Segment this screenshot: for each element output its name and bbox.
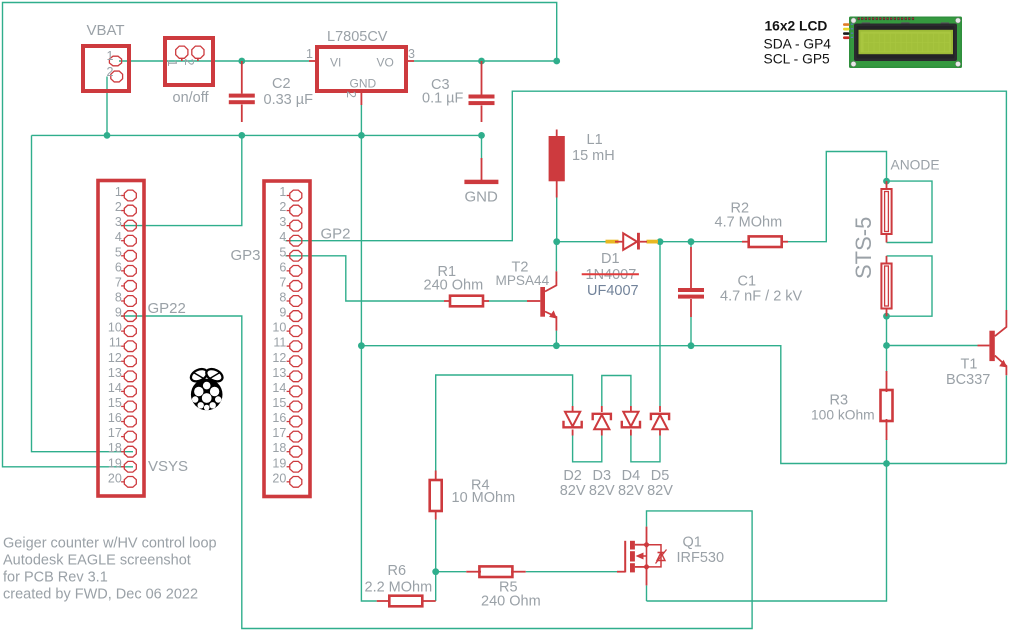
tube STS-5 upper element leads	[886, 181, 888, 242]
transistor T2 emitter	[545, 310, 557, 330]
pin header pad 5 stub	[121, 255, 124, 257]
diode D4 zener symbol	[622, 412, 640, 428]
pin header pad 18 stub	[121, 451, 124, 453]
svg-text:2: 2	[182, 59, 196, 66]
svg-text:2: 2	[344, 91, 358, 98]
pin header pad 11	[124, 341, 136, 352]
label D1	[601, 251, 620, 267]
svg-text:11: 11	[109, 336, 122, 350]
pin header pad 15 stub	[287, 405, 290, 407]
wire zener bridge D3-D4 top	[602, 376, 631, 407]
pin number 16	[272, 411, 286, 425]
label on/off	[173, 90, 210, 106]
value 240 Ohm of R1	[424, 278, 484, 294]
capacitor C3 plates	[469, 95, 495, 106]
value IRF530 of Q1	[677, 550, 725, 566]
svg-text:10 MOhm: 10 MOhm	[452, 490, 516, 506]
svg-text:L1: L1	[587, 132, 603, 148]
pin header pad 18	[290, 446, 302, 457]
label GP3	[231, 247, 261, 264]
resistor R3 body	[881, 390, 893, 421]
pin header pad 19	[290, 461, 302, 472]
svg-text:VSYS: VSYS	[148, 458, 188, 475]
svg-text:STS-5: STS-5	[851, 217, 876, 279]
pin number 13	[108, 366, 122, 380]
svg-text:C1: C1	[738, 274, 757, 290]
pin number 2 of VBAT	[107, 65, 114, 79]
svg-text:1: 1	[306, 47, 313, 61]
pin header pad 1	[124, 190, 136, 201]
strikethrough line over 1N4007	[582, 273, 639, 275]
pin header pad 2	[290, 205, 302, 216]
pin header pad 13	[124, 371, 136, 382]
value 240 Ohm of R5	[481, 594, 541, 610]
pin header pad 10 stub	[287, 330, 290, 332]
diode D1 yellow overlap left	[606, 240, 619, 244]
transistor T2 base lead	[527, 300, 540, 302]
tube STS-5 upper element	[881, 189, 891, 234]
svg-text:82V: 82V	[618, 483, 644, 499]
svg-text:13: 13	[272, 366, 286, 380]
diode D1 triangle	[623, 233, 637, 250]
svg-text:16: 16	[272, 411, 286, 425]
node junction C3 bottom / GND symbol	[478, 132, 485, 139]
pin number 1	[115, 185, 122, 199]
diode D1 yellow overlap right	[647, 240, 659, 244]
pin header pad 6	[124, 265, 136, 276]
pin number 9	[115, 306, 122, 320]
wire R4 bottom to gate node	[435, 513, 437, 572]
pin header pad 4	[124, 235, 136, 246]
pin header pad 5 stub	[287, 255, 290, 257]
pin header pad 11 stub	[287, 345, 290, 347]
svg-text:D1: D1	[601, 251, 620, 267]
wire D1 cathode to C1 junction	[658, 241, 749, 243]
pin number 1 of on/off (rotated)	[165, 60, 179, 67]
raspberry pi logo	[189, 367, 225, 411]
pin number 17	[108, 426, 122, 440]
wire GND rail up to T1 emitter	[1005, 375, 1007, 463]
pin number 2	[115, 200, 122, 214]
mosfet Q1 gate line	[624, 541, 626, 573]
pin header pad 12	[124, 356, 136, 367]
pin number 15	[272, 396, 286, 410]
label GP2	[321, 226, 351, 243]
value BC337 of T1	[946, 372, 990, 388]
diode D2 zener symbol	[564, 412, 582, 428]
resistor R3 leads	[886, 371, 888, 440]
pin header pad 18 stub	[287, 451, 290, 453]
svg-text:1: 1	[279, 185, 286, 199]
resistor R6 leads	[377, 600, 436, 602]
svg-text:Q1: Q1	[683, 535, 702, 551]
svg-text:19: 19	[108, 456, 122, 470]
svg-text:Geiger counter w/HV control lo: Geiger counter w/HV control loop	[3, 536, 217, 552]
pin header pad 1	[290, 190, 302, 201]
pin header pad 7 stub	[121, 285, 124, 287]
svg-text:Autodesk EAGLE screenshot: Autodesk EAGLE screenshot	[3, 553, 191, 569]
LCD module photo	[843, 17, 962, 69]
pin header pad 4 stub	[287, 240, 290, 242]
svg-text:ANODE: ANODE	[891, 158, 940, 173]
svg-text:GP2: GP2	[321, 226, 351, 243]
svg-text:15 mH: 15 mH	[572, 148, 615, 164]
node junction STS-5 cathode	[883, 313, 890, 320]
pin header pad 6 stub	[121, 270, 124, 272]
wire VBAT pin2 to GND bus	[106, 77, 108, 136]
label STS-5 (rotated)	[851, 217, 876, 279]
svg-text:5: 5	[279, 245, 286, 259]
label GND of ground symbol	[465, 189, 499, 206]
svg-text:1: 1	[115, 185, 122, 199]
wire header pin9 GP22 to Q1 drain loop	[121, 316, 752, 629]
label SCL - GP5	[764, 52, 831, 67]
pin header pad 16 stub	[121, 421, 124, 423]
mosfet Q1 source lead	[646, 569, 648, 585]
svg-text:15: 15	[108, 396, 122, 410]
pin header pad 10 stub	[121, 330, 124, 332]
pin number 20	[272, 471, 286, 485]
label R3	[830, 393, 849, 409]
svg-text:2: 2	[115, 200, 122, 214]
label R2	[731, 201, 750, 217]
pin number 17	[272, 426, 286, 440]
wire base node to R3 top	[886, 346, 888, 373]
pin number 2 of U1 (rotated)	[344, 91, 358, 98]
svg-text:UF4007: UF4007	[587, 283, 639, 299]
svg-text:19: 19	[272, 456, 286, 470]
svg-text:82V: 82V	[647, 483, 673, 499]
switch on/off box	[165, 38, 213, 85]
pin header pad 17	[290, 431, 302, 442]
svg-text:L7805CV: L7805CV	[327, 29, 388, 45]
label R4	[471, 478, 490, 494]
pin header pad 8 stub	[287, 300, 290, 302]
pin header pad 5	[124, 250, 136, 261]
wire VSYS border loop to header pin 19	[3, 3, 557, 467]
svg-text:9: 9	[115, 306, 122, 320]
pin header pad 11	[290, 341, 302, 352]
label T2	[512, 260, 529, 276]
pin header pad 9	[124, 311, 136, 322]
value 82V of D5	[647, 483, 673, 499]
svg-text:R6: R6	[388, 563, 407, 579]
svg-text:MPSA44: MPSA44	[496, 273, 550, 288]
svg-text:14: 14	[272, 381, 286, 395]
label VBAT	[87, 22, 125, 39]
svg-text:created by FWD, Dec 06 2022: created by FWD, Dec 06 2022	[3, 587, 198, 603]
pin number 19	[272, 456, 286, 470]
svg-text:3: 3	[408, 47, 415, 61]
node junction base node R3/T1	[883, 342, 890, 349]
pin header pad 17	[124, 431, 136, 442]
svg-text:D2: D2	[563, 468, 582, 484]
pin header pad 6	[290, 265, 302, 276]
svg-text:6: 6	[115, 260, 122, 274]
pin header pad 3	[124, 220, 136, 231]
wire GND rail down to Q1 source	[647, 464, 887, 602]
pin number 3	[279, 215, 286, 229]
svg-text:3: 3	[115, 215, 122, 229]
svg-text:2.2 MOhm: 2.2 MOhm	[365, 580, 433, 596]
wire GND vertical from bus down to R6	[361, 135, 376, 601]
pin number 1	[279, 185, 286, 199]
svg-text:82V: 82V	[589, 483, 615, 499]
value 0.1 uF of C3	[422, 91, 464, 107]
pin number 12	[108, 351, 122, 365]
pin number 6	[115, 260, 122, 274]
svg-text:for PCB Rev 3.1: for PCB Rev 3.1	[3, 570, 108, 586]
svg-text:17: 17	[272, 426, 286, 440]
pin header pad 12 stub	[121, 360, 124, 362]
value UF4007 of D1	[587, 283, 639, 299]
pin header pad 3 stub	[121, 225, 124, 227]
wire zener chain top from R4	[436, 375, 573, 477]
svg-text:D4: D4	[622, 468, 641, 484]
transistor T2 collector	[545, 271, 556, 291]
resistor R5 leads	[466, 571, 525, 573]
pin number 13	[272, 366, 286, 380]
label D5	[651, 468, 670, 484]
wire GND bus to header pin18	[32, 135, 134, 451]
pin number 15	[108, 396, 122, 410]
label GP22	[148, 300, 186, 317]
diode D4 leads	[630, 406, 632, 436]
pin header pad 3 stub	[287, 225, 290, 227]
label D4	[622, 468, 641, 484]
wire zener U D2-D3 bottom	[573, 436, 602, 462]
label Q1	[683, 535, 702, 551]
pin number 4	[279, 230, 286, 244]
value 100 kOhm of R3	[811, 408, 875, 423]
pin header pad 2	[124, 205, 136, 216]
wire STS-5 upper loop	[887, 181, 933, 242]
pin number 11	[273, 336, 286, 350]
pin number 5	[279, 245, 286, 259]
wire R6 right to gate node	[435, 572, 437, 601]
svg-text:R3: R3	[830, 393, 849, 409]
node junction D5 stack top	[657, 238, 664, 245]
svg-text:4.7 nF / 2 kV: 4.7 nF / 2 kV	[720, 289, 803, 305]
pin number 14	[272, 381, 286, 395]
wire GND bus under regulator	[32, 134, 482, 136]
label L1	[587, 132, 603, 148]
svg-text:0.33 µF: 0.33 µF	[264, 92, 314, 108]
pin number 5	[115, 245, 122, 259]
svg-text:16x2 LCD: 16x2 LCD	[765, 19, 828, 34]
svg-text:4: 4	[279, 230, 286, 244]
svg-text:82V: 82V	[560, 483, 586, 499]
svg-text:VI: VI	[330, 56, 341, 70]
svg-text:8: 8	[279, 290, 286, 304]
wire +5V net: U1 VO to C3 and L1	[414, 60, 557, 62]
label L7805CV	[327, 29, 388, 45]
pin header pad 7	[124, 281, 136, 292]
pin header pad 19 stub	[121, 466, 124, 468]
connector VBAT pad 2	[111, 71, 123, 82]
diode D1 cathode lead	[640, 241, 647, 243]
pin header pad 13 stub	[287, 375, 290, 377]
wire STS-5 lower loop	[887, 256, 933, 316]
pin number 2	[279, 200, 286, 214]
node junction T2 emitter on GND rail	[553, 342, 560, 349]
svg-text:on/off: on/off	[173, 90, 210, 106]
capacitor C2 leads	[241, 61, 243, 122]
pin number 2 of on/off (rotated)	[182, 59, 196, 66]
pin number 18	[272, 441, 286, 455]
pin header pad 20	[290, 476, 302, 487]
pin header pad 2 stub	[287, 210, 290, 212]
wire C2 bottom to pin3 of left header	[121, 135, 242, 225]
svg-text:2: 2	[279, 200, 286, 214]
pin number 14	[108, 381, 122, 395]
mosfet Q1 gate lead	[617, 571, 625, 573]
svg-text:GND: GND	[465, 189, 499, 206]
node junction VBAT pin2 / GND bus	[104, 132, 111, 139]
svg-text:5: 5	[115, 245, 122, 259]
pin number 10	[272, 321, 286, 335]
capacitor C1 plates	[678, 288, 704, 299]
regulator U1 pin VO stub	[406, 60, 414, 62]
svg-text:4: 4	[115, 230, 122, 244]
svg-text:BC337: BC337	[946, 372, 990, 388]
svg-text:D3: D3	[593, 468, 612, 484]
inductor L1 leads	[556, 130, 558, 198]
pin header pad 14 stub	[287, 390, 290, 392]
svg-text:20: 20	[108, 471, 122, 485]
wire GP3 net: header pin5 to R1	[286, 256, 445, 301]
svg-text:D5: D5	[651, 468, 670, 484]
pin header pad 8	[290, 296, 302, 307]
pin header pad 7 stub	[287, 285, 290, 287]
pin number 8	[279, 290, 286, 304]
pin header pad 12 stub	[287, 360, 290, 362]
label 16x2 LCD	[765, 19, 828, 34]
wire zener U D4-D5 bottom	[631, 436, 660, 462]
wire T2 emitter vertical	[555, 331, 557, 346]
svg-text:SCL - GP5: SCL - GP5	[764, 52, 831, 67]
wire GP2 net: header pin4 to T1 collector	[286, 91, 1007, 310]
pin header pad 4 stub	[121, 240, 124, 242]
pin header pad 17 stub	[287, 436, 290, 438]
pin name VO	[377, 56, 394, 70]
svg-text:20: 20	[272, 471, 286, 485]
svg-text:SDA - GP4: SDA - GP4	[764, 37, 832, 52]
label C1	[738, 274, 757, 290]
resistor R6 body	[389, 596, 422, 607]
value 0.33 uF of C2	[264, 92, 314, 108]
node junction U1 GND pin / bus	[358, 132, 365, 139]
pin header pad 6 stub	[287, 270, 290, 272]
pin header pad 1 stub	[287, 195, 290, 197]
pin header pad 4	[290, 235, 302, 246]
pin header pad 8 stub	[121, 300, 124, 302]
svg-text:VO: VO	[377, 56, 394, 70]
resistor R1 leads	[444, 300, 489, 302]
svg-text:8: 8	[115, 290, 122, 304]
svg-text:4.7 MOhm: 4.7 MOhm	[715, 215, 783, 231]
pin number 11	[109, 336, 122, 350]
value 15 mH of L1	[572, 148, 615, 164]
pin header pad 20 stub	[121, 481, 124, 483]
pin header pad 7	[290, 281, 302, 292]
node junction C3 top	[478, 58, 485, 65]
wire gate node to R5	[436, 571, 467, 573]
value 2.2 MOhm of R6	[365, 580, 433, 596]
pin number 20	[108, 471, 122, 485]
pin number 3 of U1	[408, 47, 415, 61]
label R5	[499, 580, 518, 596]
mosfet Q1 body connection	[636, 545, 647, 567]
pin header pad 9 stub	[121, 315, 124, 317]
svg-text:18: 18	[108, 441, 122, 455]
pin header pad 11 stub	[121, 345, 124, 347]
wire HV node: L1 bottom to D1	[557, 198, 606, 242]
svg-text:GP22: GP22	[148, 300, 186, 317]
value MPSA44 of T2	[496, 273, 550, 288]
ground symbol lead	[481, 158, 483, 180]
pin number 19	[108, 456, 122, 470]
caption line 1	[3, 536, 217, 552]
pin header pad 12	[290, 356, 302, 367]
pin header pad 10	[124, 326, 136, 337]
svg-text:3: 3	[279, 215, 286, 229]
svg-text:17: 17	[108, 426, 122, 440]
pin name GND inside U1	[350, 77, 377, 91]
wire R5 to Q1 gate	[526, 571, 617, 573]
svg-text:VBAT: VBAT	[87, 22, 125, 39]
pin header pad 19	[124, 461, 136, 472]
pin header box	[264, 181, 310, 497]
diode D3 zener symbol	[593, 414, 611, 430]
wire C3 bottom to GND symbol	[481, 135, 483, 160]
svg-text:1: 1	[107, 49, 114, 63]
wire R3 bottom to GND rail	[886, 439, 888, 464]
pin header pad 15	[290, 401, 302, 412]
resistor R1 body	[450, 296, 483, 307]
pin header pad 14	[290, 386, 302, 397]
capacitor C2 plates	[229, 94, 255, 105]
pin header pad 13 stub	[121, 375, 124, 377]
label R1	[438, 264, 457, 280]
diode D3 leads	[601, 406, 603, 436]
transistor T1 base lead	[978, 345, 990, 347]
pin header pad 16	[124, 416, 136, 427]
connector VBAT box	[83, 46, 129, 91]
wire C1 top lead net	[690, 242, 692, 247]
svg-text:11: 11	[273, 336, 286, 350]
svg-text:1: 1	[165, 60, 179, 67]
svg-text:0.1 µF: 0.1 µF	[422, 91, 464, 107]
pin header pad 13	[290, 371, 302, 382]
svg-text:14: 14	[108, 381, 122, 395]
wire on/off pin stubs	[182, 58, 198, 61]
switch on/off pad 2	[192, 46, 204, 58]
resistor R2 leads	[742, 241, 788, 243]
node junction GND / emitter rail start	[358, 342, 365, 349]
transistor T1 bar	[989, 331, 994, 361]
label T1	[961, 357, 978, 373]
caption line 3	[3, 570, 108, 586]
tube STS-5 lower element	[881, 264, 891, 309]
pin header pad 5	[290, 250, 302, 261]
svg-text:T1: T1	[961, 357, 978, 373]
caption line 4	[3, 587, 198, 603]
diode D5 leads	[659, 406, 661, 436]
pin number 3	[115, 215, 122, 229]
pin header box	[98, 181, 144, 497]
pin header pad 17 stub	[121, 436, 124, 438]
